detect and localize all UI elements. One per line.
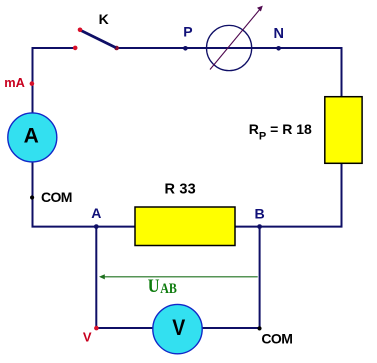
resistor R 33 (135, 207, 235, 246)
svg-text:A: A (24, 124, 39, 147)
ammeter terminal COM (30, 195, 34, 199)
voltmeter terminal V (red) (94, 326, 99, 331)
svg-text:AB: AB (160, 281, 177, 297)
switch K right contact (dark) (114, 46, 119, 51)
wire: bottom of main loop from bottom-right corner to bottom-left corner (32, 226, 343, 228)
svg-text:K: K (99, 11, 109, 27)
svg-text:R 33: R 33 (165, 181, 196, 197)
svg-text:A: A (91, 205, 101, 221)
svg-text:B: B (254, 206, 264, 222)
ammeter A (8, 113, 57, 162)
node B (257, 224, 262, 229)
svg-text:V: V (172, 315, 185, 340)
switch K blade (80, 30, 116, 48)
svg-text:U: U (148, 276, 160, 297)
switch K pivot contact (red) (78, 28, 83, 33)
svg-text:P: P (183, 24, 192, 40)
svg-text:mA: mA (4, 75, 25, 90)
wire: node A down to voltmeter V terminal (95, 227, 97, 328)
svg-text:COM: COM (41, 189, 72, 205)
voltmeter terminal COM (257, 326, 261, 330)
wire: right vertical from top-right corner down to bottom-right corner (341, 47, 343, 228)
voltmeter V (153, 304, 202, 353)
node A (94, 224, 99, 229)
wire: left vertical from top-left corner down to bottom loop (32, 47, 34, 227)
svg-text:COM: COM (261, 331, 292, 347)
wire: top-right horizontal from switch K right contact to top-right corner (117, 47, 343, 49)
ammeter terminal mA (red) (30, 81, 35, 86)
rheostat circle (207, 25, 252, 70)
node P (183, 46, 188, 51)
U_AB arrow (99, 274, 258, 279)
wire: node B down to voltmeter COM terminal (259, 227, 261, 329)
rheostat adjustment arrow (210, 6, 263, 70)
wire: top-left horizontal from corner to switch K left contact (32, 47, 76, 49)
svg-text:N: N (274, 26, 284, 42)
node N (276, 46, 281, 51)
resistor R_P (R 18) (325, 97, 362, 164)
svg-text:V: V (83, 330, 92, 345)
svg-text:RP = R 18: RP = R 18 (249, 121, 312, 143)
wire: bottom branch through voltmeter from V terminal to COM terminal (96, 327, 259, 329)
switch K left contact (red) (73, 46, 78, 51)
